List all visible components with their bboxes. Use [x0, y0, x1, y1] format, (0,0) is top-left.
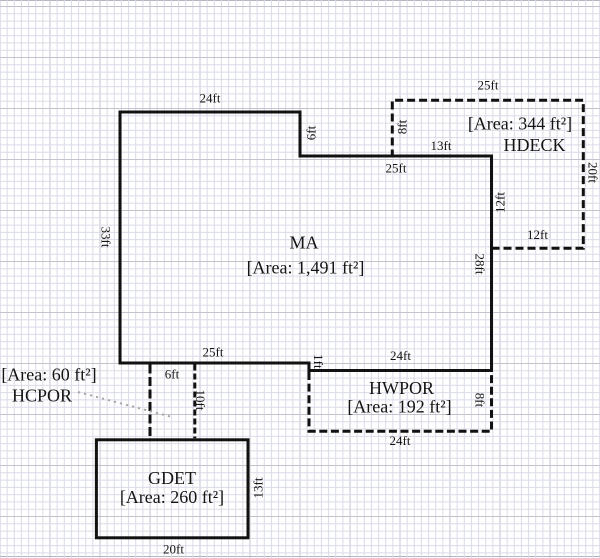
- leader line HCPOR: [78, 392, 172, 417]
- svg-text:24ft: 24ft: [390, 348, 411, 363]
- svg-text:24ft: 24ft: [390, 433, 411, 448]
- svg-text:[Area: 192 ft²]: [Area: 192 ft²]: [347, 397, 451, 417]
- svg-text:GDET: GDET: [148, 468, 196, 488]
- svg-text:13ft: 13ft: [250, 477, 265, 498]
- svg-text:12ft: 12ft: [527, 227, 548, 242]
- svg-text:25ft: 25ft: [478, 78, 499, 93]
- svg-text:[Area: 60 ft²]: [Area: 60 ft²]: [1, 365, 96, 385]
- svg-text:33ft: 33ft: [99, 227, 114, 248]
- svg-text:[Area: 344 ft²]: [Area: 344 ft²]: [468, 114, 572, 134]
- dashed side line HCPOR right: [193, 365, 196, 439]
- svg-text:13ft: 13ft: [431, 138, 452, 153]
- svg-text:8ft: 8ft: [394, 119, 409, 134]
- dashed outline room HWPOR: [309, 372, 492, 431]
- svg-text:24ft: 24ft: [200, 91, 221, 106]
- svg-text:1ft: 1ft: [311, 354, 326, 369]
- svg-text:12ft: 12ft: [492, 192, 507, 213]
- svg-text:HWPOR: HWPOR: [369, 378, 434, 398]
- svg-text:28ft: 28ft: [473, 254, 488, 275]
- svg-text:HDECK: HDECK: [504, 135, 566, 155]
- svg-text:10ft: 10ft: [193, 390, 208, 411]
- svg-text:25ft: 25ft: [203, 345, 224, 360]
- svg-text:20ft: 20ft: [163, 542, 184, 557]
- svg-text:HCPOR: HCPOR: [12, 386, 72, 406]
- svg-text:8ft: 8ft: [473, 393, 488, 408]
- svg-text:MA: MA: [289, 233, 318, 253]
- wall outline room GDET: [96, 440, 248, 538]
- svg-text:[Area: 1,491 ft²]: [Area: 1,491 ft²]: [247, 258, 365, 278]
- svg-text:20ft: 20ft: [586, 162, 600, 183]
- dashed outline room HDECK: [392, 100, 583, 248]
- svg-text:6ft: 6ft: [303, 125, 318, 140]
- svg-text:6ft: 6ft: [165, 367, 180, 382]
- svg-text:[Area: 260 ft²]: [Area: 260 ft²]: [120, 487, 224, 507]
- svg-text:25ft: 25ft: [386, 161, 407, 176]
- wall outline room MA: [120, 112, 492, 371]
- dashed side line HCPOR left: [149, 365, 152, 439]
